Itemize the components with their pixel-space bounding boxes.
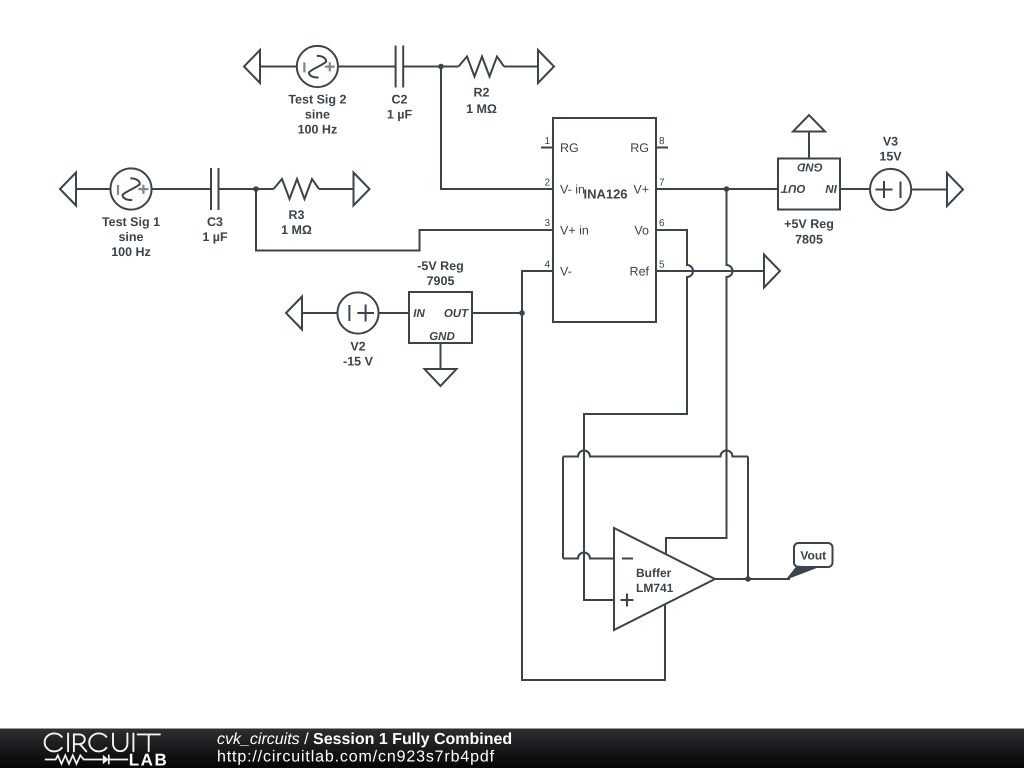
svg-text:sine: sine — [305, 108, 330, 122]
svg-text:C3: C3 — [207, 215, 223, 229]
svg-text:RG: RG — [630, 141, 649, 155]
pin 1 stub — [541, 147, 553, 149]
svg-text:V+ in: V+ in — [560, 224, 589, 238]
wire (V+ rail J4 down to buffer, hop at Ref) — [666, 189, 733, 555]
svg-text:R2: R2 — [474, 86, 490, 100]
source V3 — [870, 169, 911, 210]
capacitor C2 — [396, 46, 404, 88]
op-amp U4 LM741 buffer — [614, 528, 715, 630]
pin label GND (rotated) — [797, 161, 823, 173]
wire (J2 to pin 3 of U1) — [256, 189, 553, 251]
svg-text:V+: V+ — [633, 183, 649, 197]
resistor R3 — [274, 179, 320, 199]
svg-text:GND: GND — [797, 161, 823, 173]
wire — [319, 188, 354, 190]
ground — [425, 369, 457, 386]
wire — [219, 188, 274, 190]
wire — [152, 188, 211, 190]
wire — [404, 66, 459, 68]
terminal T2 (row 1 right) — [538, 50, 554, 83]
node Vout flag — [786, 566, 819, 581]
svg-text:INA126: INA126 — [583, 187, 627, 202]
pin label IN (rotated) — [825, 182, 837, 194]
wire — [379, 312, 409, 314]
svg-text:http://circuitlab.com/cn923s7r: http://circuitlab.com/cn923s7rb4pdf — [217, 748, 495, 765]
power flag VCC above 7805 — [793, 115, 825, 132]
svg-text:4: 4 — [544, 260, 550, 271]
svg-text:OUT: OUT — [780, 182, 805, 194]
terminal T6 (V3) — [947, 173, 963, 206]
svg-text:100 Hz: 100 Hz — [111, 245, 151, 259]
svg-text:IN: IN — [413, 308, 425, 320]
wire — [504, 66, 538, 68]
svg-text:IN: IN — [825, 182, 837, 194]
svg-text:cvk_circuits / Session 1 Fully: cvk_circuits / Session 1 Fully Combined — [217, 731, 512, 748]
logo diode — [103, 755, 109, 765]
wire (feedback top, hops over two verticals) — [563, 451, 748, 457]
svg-text:Test Sig 1: Test Sig 1 — [102, 215, 160, 229]
svg-text:LM741: LM741 — [636, 581, 674, 595]
svg-text:Vo: Vo — [634, 224, 649, 238]
svg-text:LAB: LAB — [129, 750, 168, 768]
regulator U2 7805 body (rotated 180) — [778, 159, 840, 210]
plus input mark — [621, 594, 634, 607]
wire (pin 4 V- rail down to buffer) — [522, 271, 665, 680]
svg-text:5: 5 — [659, 260, 665, 271]
svg-text:7805: 7805 — [795, 233, 823, 247]
svg-text:1 MΩ: 1 MΩ — [466, 102, 497, 116]
svg-text:8: 8 — [659, 136, 665, 147]
svg-text:3: 3 — [544, 218, 550, 229]
svg-text:-5V Reg: -5V Reg — [417, 259, 464, 273]
svg-text:15V: 15V — [879, 150, 902, 164]
wire — [911, 189, 947, 191]
svg-text:GND: GND — [429, 331, 455, 343]
svg-text:RG: RG — [560, 141, 579, 155]
svg-text:C2: C2 — [392, 93, 408, 107]
source Test Sig 1 — [110, 168, 151, 209]
svg-text:7: 7 — [659, 178, 665, 189]
minus input mark — [622, 558, 633, 560]
svg-text:R3: R3 — [289, 208, 305, 222]
svg-text:6: 6 — [659, 218, 665, 229]
op-amp U1 INA126 body — [553, 118, 656, 322]
footer bar — [0, 729, 1024, 769]
svg-text:Buffer: Buffer — [636, 566, 672, 580]
wire (GND stem) — [440, 343, 442, 369]
svg-text:V2: V2 — [350, 340, 365, 354]
terminal T4 (row 2 right) — [354, 173, 370, 206]
node junction J3 — [519, 310, 525, 316]
wire (output) — [715, 578, 790, 580]
wire (pin 5 Ref to terminal) — [656, 270, 764, 272]
svg-text:1 µF: 1 µF — [202, 230, 228, 244]
regulator U3 7905 body — [409, 292, 472, 343]
wire (pin 7 V+ to 7805) — [656, 188, 778, 190]
node junction J2 — [253, 186, 259, 192]
svg-text:Test Sig 2: Test Sig 2 — [288, 93, 346, 107]
svg-text:Ref: Ref — [630, 265, 650, 279]
capacitor C3 — [211, 168, 219, 210]
wire — [840, 188, 870, 190]
source Test Sig 2 — [297, 46, 338, 87]
terminal T3 (row 2 left) — [60, 173, 76, 206]
wire (pin 6 Vo to buffer + input, hop at Ref) — [584, 230, 693, 600]
wire (feedback right vertical) — [747, 457, 749, 580]
wire — [338, 66, 395, 68]
logo resistor squiggle — [45, 755, 128, 765]
terminal T1 (row 1 left) — [244, 50, 260, 83]
wire — [76, 188, 110, 190]
wire (7905 OUT to V- rail) — [472, 312, 522, 314]
svg-text:1 MΩ: 1 MΩ — [281, 223, 312, 237]
node junction J5 — [745, 576, 751, 582]
svg-text:V-: V- — [560, 265, 572, 279]
source V2 — [337, 292, 378, 333]
pin label OUT (rotated) — [780, 182, 805, 194]
svg-text:100 Hz: 100 Hz — [298, 123, 338, 137]
resistor R2 — [459, 57, 505, 77]
node junction J4 — [724, 186, 730, 192]
wire — [302, 312, 337, 314]
svg-text:1 µF: 1 µF — [387, 108, 413, 122]
svg-text:-15 V: -15 V — [343, 355, 374, 369]
wire (feedback left vertical) — [562, 457, 564, 559]
svg-text:V- in: V- in — [560, 183, 585, 197]
pin 8 stub — [656, 147, 668, 149]
svg-text:sine: sine — [118, 230, 143, 244]
wire (J1 down to pin 2 of U1) — [441, 67, 553, 190]
svg-text:+5V Reg: +5V Reg — [784, 217, 834, 231]
svg-text:V3: V3 — [883, 135, 898, 149]
node junction J1 — [438, 64, 444, 70]
wire (to - input, hop) — [563, 553, 614, 559]
wire — [808, 132, 810, 159]
logo CIRCUIT lettering — [45, 733, 160, 751]
svg-text:Vout: Vout — [800, 549, 826, 563]
svg-text:2: 2 — [544, 178, 550, 189]
svg-text:OUT: OUT — [444, 308, 469, 320]
svg-text:1: 1 — [544, 136, 550, 147]
terminal T7 (V2 left) — [286, 297, 302, 330]
svg-text:7905: 7905 — [427, 274, 455, 288]
terminal T5 (Ref) — [764, 255, 780, 288]
wire — [260, 66, 297, 68]
